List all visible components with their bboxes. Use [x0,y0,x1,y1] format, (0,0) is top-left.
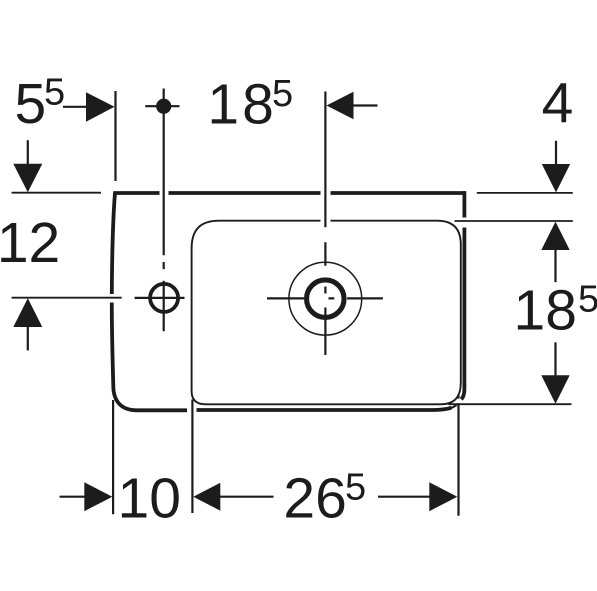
dimension 10 arrow tail [60,496,85,498]
svg-text:5: 5 [44,72,65,114]
drain outer circle [289,262,362,335]
dimension 26.5 left arrow tail [220,496,274,498]
svg-text:18: 18 [207,73,276,137]
dot marker crosshair [145,105,179,107]
dimension 4 arrow tail [555,141,557,165]
extension line top edge level left (12 dim) [12,192,101,194]
tap hole circle [150,284,178,312]
dimension 18.5 right upper arrow tail [554,249,556,282]
svg-text:12: 12 [0,211,60,275]
extension line bowl left edge (10/26.5 dim) [191,400,193,514]
dimension 18.5 right lower arrow (down) [541,375,569,403]
svg-text:10: 10 [118,467,181,531]
outer basin outline top edge [113,191,464,195]
dimension 12 upper arrow tail [27,140,29,165]
dimension 26.5 right arrow (right) [429,482,457,511]
dimension 10 arrow (right) [84,482,112,511]
svg-text:5: 5 [578,279,597,321]
extension line bowl right edge (26.5 dim) [457,394,459,515]
outer basin outline bottom edge left part and bottom-left corner [112,303,187,411]
dimension 5.5 arrow tail [63,106,87,108]
dimension 18.5 top arrow tail [352,104,378,106]
tap hole centerline vertical [163,281,165,331]
extension line tap hole level left (12 dim) [12,297,122,299]
outer basin outline right edge [461,191,464,399]
svg-text:18: 18 [514,279,577,343]
outer basin outline bottom edge right part with taper [197,408,452,410]
extension line basin bottom-left (10 dim) [112,400,114,514]
dimension 26.5 right arrow tail [378,496,430,498]
svg-text:5: 5 [272,73,293,115]
tap hole axis line from dot [163,89,165,270]
svg-text:5: 5 [345,467,366,509]
drain centerline vertical [324,92,326,356]
inner bowl outline [192,221,461,405]
svg-text:4: 4 [542,72,574,136]
dimension 12 lower arrow (up) [13,298,42,327]
outer basin outline left edge upper part [112,193,115,294]
extension line bowl top edge right (4 dim) [455,220,573,222]
dimension 26.5 left arrow (left) [193,483,220,511]
tap hole centerline horizontal [135,297,185,299]
dimension 12 upper arrow (down) [13,164,42,193]
extension line outer top edge right (4 dim) [477,192,573,194]
dimension 18.5 right upper arrow (up) [541,222,569,250]
dimension 18.5 right lower arrow tail [554,342,556,376]
extension line left edge of basin (5.5 dim) [114,91,116,181]
dimension 18.5 top arrow [327,92,354,119]
dimension 12 lower arrow tail [27,326,29,350]
svg-text:26: 26 [283,467,346,531]
dimension 5.5 arrow [86,92,115,122]
extension line bowl bottom edge right (18.5 dim) [448,403,571,405]
outer outline bottom-right taper tip [451,405,457,408]
svg-text:5: 5 [15,72,47,136]
drain centerline horizontal [267,297,383,299]
dot marker on tap hole axis [156,99,171,114]
drain inner thick ring [307,280,345,318]
dimension 4 arrow (down) [542,164,570,192]
